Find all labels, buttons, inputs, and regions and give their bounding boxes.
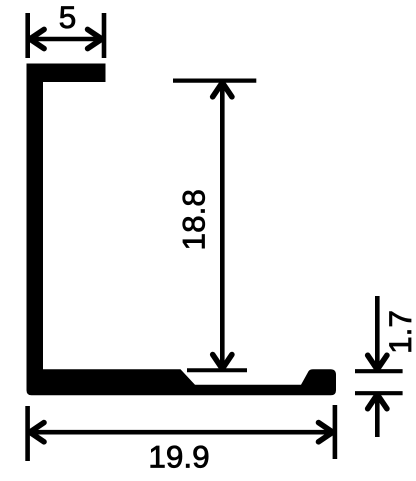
dim 18.8: bottom arrowhead — [213, 355, 232, 369]
dim 18.8: dimension line — [220, 83, 225, 369]
dim 19.9: left arrowhead — [30, 423, 44, 442]
dim 1.7: upper tick line — [355, 369, 403, 373]
dim 19.9: right arrowhead — [319, 423, 333, 442]
dim 5: right arrowhead — [88, 29, 102, 48]
profile cross-section (J-channel extrusion, black fill) — [27, 64, 337, 396]
dim 18.8: top extension line — [173, 78, 256, 82]
dim 1.7: lower dimension line (arrow pointing up) — [375, 395, 380, 438]
svg-text:19.9: 19.9 — [148, 439, 209, 475]
dim 18.8: bottom extension line — [187, 368, 247, 372]
dim 1.7: upper arrowhead — [368, 355, 387, 369]
svg-text:5: 5 — [59, 0, 77, 35]
dim 18.8: top arrowhead — [213, 83, 232, 97]
dim 5: right extension line — [102, 13, 107, 58]
dim 1.7: upper dimension line (arrow pointing down) — [375, 296, 380, 370]
dim 5: left arrowhead — [30, 29, 44, 48]
dim 1.7: lower arrowhead — [368, 395, 387, 409]
svg-text:18.8: 18.8 — [176, 189, 212, 250]
dim 5: left extension line — [25, 13, 30, 58]
svg-text:1.7: 1.7 — [382, 310, 416, 354]
dim 19.9: dimension line — [30, 430, 333, 435]
dim 1.7: lower tick line — [355, 391, 403, 395]
dim 19.9: left extension line — [25, 406, 30, 461]
dim 5: dimension line — [30, 37, 102, 42]
dim 19.9: right extension line — [333, 405, 338, 459]
